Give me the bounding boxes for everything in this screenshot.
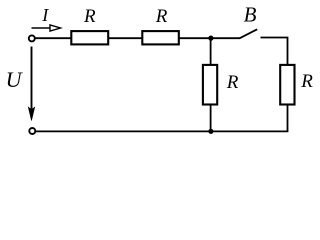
svg-text:R: R xyxy=(300,71,313,92)
svg-text:R: R xyxy=(83,6,96,27)
wire: junction down to R3 xyxy=(210,38,212,64)
svg-text:I: I xyxy=(41,5,49,25)
resistor R (second) xyxy=(142,31,179,44)
wire: switch fixed contact to right corner xyxy=(261,38,288,65)
resistor R (first) xyxy=(71,31,108,44)
svg-text:U: U xyxy=(6,67,24,92)
svg-text:R: R xyxy=(155,6,168,27)
node junction top xyxy=(208,36,213,41)
current arrow I xyxy=(32,25,61,31)
terminal top-left xyxy=(29,35,35,41)
svg-text:B: B xyxy=(244,3,257,27)
wire: R4 down to bottom wire xyxy=(287,105,289,132)
resistor R (right branch) xyxy=(280,65,294,105)
voltage arrow U xyxy=(28,47,34,121)
wire bottom: terminal to right corner xyxy=(36,130,288,132)
terminal bottom-left xyxy=(29,128,35,134)
wire: R3 down to bottom junction xyxy=(210,105,212,132)
wire: R1 to R2 xyxy=(109,37,143,39)
resistor R (middle branch) xyxy=(203,65,217,105)
wire top: terminal to R1 xyxy=(36,37,72,39)
switch B blade xyxy=(240,29,257,38)
node junction bottom xyxy=(208,129,213,134)
wire: R2 to switch pivot xyxy=(178,37,240,39)
svg-text:R: R xyxy=(226,72,239,93)
